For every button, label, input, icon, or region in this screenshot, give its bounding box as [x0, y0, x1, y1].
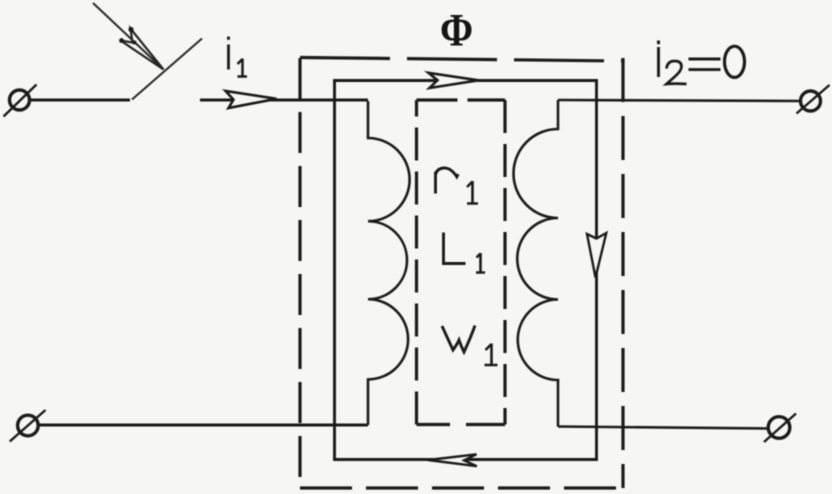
current arrow i1: [226, 91, 277, 108]
flux arrow right (points down): [587, 233, 606, 278]
svg-text:Φ: Φ: [440, 5, 473, 57]
label W1: [442, 326, 498, 366]
label i2 = 0: [659, 41, 745, 85]
wire: X1 to switch: [30, 98, 131, 101]
secondary winding (right limb, open): [514, 100, 559, 427]
terminal X4 (bottom-right, open secondary): [764, 414, 796, 443]
core outer boundary (dashed): [300, 58, 623, 489]
core window boundary (dashed): [417, 100, 506, 425]
flux arrow top (points right): [429, 73, 479, 88]
terminal X3 (bottom-left): [10, 410, 46, 442]
terminal X1 (top-left input): [4, 85, 37, 117]
wire: secondary winding to X4: [558, 427, 768, 429]
switch S (open blade): [132, 39, 202, 100]
flux path (solid loop): [335, 81, 597, 460]
flux arrow bottom (points left): [428, 454, 477, 466]
primary winding W1 (left limb): [368, 101, 410, 425]
wire: secondary winding to X2: [558, 100, 801, 101]
wire: primary winding to X3: [38, 423, 368, 426]
label L1: [444, 233, 486, 273]
label r1: [436, 168, 479, 204]
wire: switch to primary winding with current arrow i1: [200, 98, 368, 101]
terminal X2 (top-right, open secondary): [797, 85, 830, 114]
label i1: [229, 37, 248, 77]
switch closing arrow: [93, 3, 164, 70]
